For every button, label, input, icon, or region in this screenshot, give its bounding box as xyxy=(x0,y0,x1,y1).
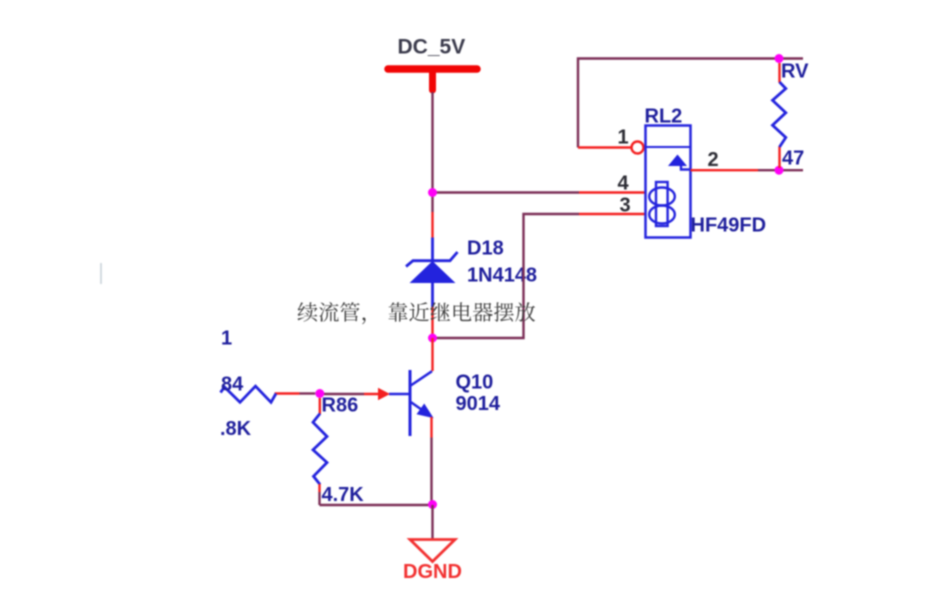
cursor artifact tick xyxy=(100,263,102,284)
svg-text:HF49FD: HF49FD xyxy=(691,215,767,237)
svg-text:1: 1 xyxy=(618,127,629,149)
pin 1 wire (red) xyxy=(578,146,632,148)
wire: J1 down to diode D18 xyxy=(431,193,433,213)
wire: J4 to ground xyxy=(431,505,433,539)
node J3 xyxy=(315,389,324,398)
svg-text:Q10: Q10 xyxy=(456,372,494,394)
svg-text:1N4148: 1N4148 xyxy=(467,265,537,287)
svg-text:R86: R86 xyxy=(322,395,359,417)
wire: J1 to relay pin 4 xyxy=(433,191,580,193)
transistor Q10 xyxy=(389,370,432,436)
pin 3 stub (red) xyxy=(579,213,646,215)
svg-text:4: 4 xyxy=(618,173,630,195)
wire: R84 to J3 xyxy=(275,392,300,394)
wire: J3 to base xyxy=(324,393,364,395)
svg-text:1: 1 xyxy=(221,328,232,350)
svg-text:3: 3 xyxy=(620,195,631,217)
wire: relay pin 1 loop xyxy=(578,59,803,148)
resistor RV leads xyxy=(778,63,780,168)
relay coil xyxy=(649,182,675,226)
svg-text:RL2: RL2 xyxy=(645,106,683,128)
resistor R84 (cut off at left) xyxy=(221,386,277,402)
node J2 xyxy=(428,334,437,343)
svg-text:DGND: DGND xyxy=(403,561,462,583)
svg-text:RV: RV xyxy=(781,61,809,83)
pin 4 stub (red) xyxy=(579,191,646,193)
node J6 xyxy=(775,166,784,175)
diode D18 (zener style, pointing up) xyxy=(406,238,458,308)
svg-text:D18: D18 xyxy=(467,238,504,260)
base drive arrow (red) xyxy=(364,393,379,396)
note text (Chinese) xyxy=(298,302,535,324)
ground DGND xyxy=(410,540,455,562)
node J4 xyxy=(428,500,437,509)
svg-text:84: 84 xyxy=(221,374,244,396)
wire: DC_5V to junction J1 xyxy=(431,92,433,193)
wire: diode to junction J2 xyxy=(431,307,433,338)
wire: R86 bottom to J4 xyxy=(320,492,433,505)
pin 2 wire xyxy=(691,169,759,171)
svg-text:.8K: .8K xyxy=(220,418,252,440)
svg-text:DC_5V: DC_5V xyxy=(398,36,466,59)
svg-text:9014: 9014 xyxy=(456,393,501,415)
resistor R86 xyxy=(319,398,321,414)
wire: relay pin 3 branch xyxy=(433,214,580,338)
svg-text:4.7K: 4.7K xyxy=(322,484,365,506)
node J1 xyxy=(428,188,437,197)
relay RL2 body xyxy=(646,126,691,238)
wire: Q10 emitter down xyxy=(430,417,432,438)
resistor RV zigzag xyxy=(773,82,786,147)
svg-text:47: 47 xyxy=(782,148,804,170)
wire: J2 to Q10 collector xyxy=(431,338,433,371)
svg-text:2: 2 xyxy=(708,149,719,171)
pin 1 inverted bubble xyxy=(632,142,644,154)
relay switch arrow xyxy=(668,155,687,167)
node J5 xyxy=(775,54,784,63)
